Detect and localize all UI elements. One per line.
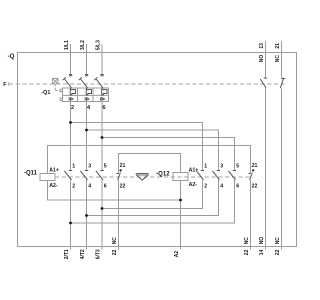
svg-text:-Q: -Q	[8, 53, 15, 60]
junction T3 crossover	[101, 207, 104, 210]
Q1 magnetic release I> pole 3	[101, 98, 105, 101]
wire Q11 pole 2 output to terminal 4/T2	[86, 180, 88, 250]
Q1 pole contacts and releases drawn per pole	[63, 75, 107, 101]
junction dots	[69, 121, 254, 224]
node L2 top lead	[86, 44, 88, 76]
svg-text:6: 6	[236, 183, 239, 189]
svg-text:4: 4	[88, 183, 91, 189]
junction A2	[179, 199, 182, 202]
svg-text:22: 22	[120, 183, 126, 189]
wire Q12 coil A2 drop to terminal A2	[180, 181, 182, 250]
Q11 contact 5-6	[96, 171, 104, 180]
node L1 top lead	[70, 44, 72, 76]
svg-text:A2-: A2-	[189, 182, 198, 188]
wire Q11 aux 21 to Q12 coil A1	[119, 154, 181, 174]
svg-text:5: 5	[104, 163, 107, 169]
svg-text:A1+: A1+	[189, 167, 199, 173]
coil Q11	[40, 174, 55, 181]
svg-text:6: 6	[104, 183, 107, 189]
Q12 aux NC contact 21-22	[249, 172, 253, 180]
Q1 thermal release pole 1	[70, 88, 75, 95]
text labels	[3, 53, 170, 177]
svg-text:-Q12: -Q12	[156, 171, 170, 177]
wire T1 from Q1 to Q11 contact 1	[70, 102, 72, 171]
svg-text:2/T1: 2/T1	[64, 249, 70, 259]
Q1 pole 1 contact	[63, 75, 72, 88]
wire Q11 aux 22 to terminal 22	[118, 180, 120, 250]
svg-text:5/L3: 5/L3	[95, 40, 101, 50]
manual operator of Q1 (crossed box)	[53, 79, 59, 85]
wire Q12 pole 1 output crossover to T3	[102, 180, 203, 209]
marker Q11 aux	[120, 169, 122, 171]
svg-text:1/L1: 1/L1	[64, 40, 70, 50]
svg-text:22: 22	[252, 183, 258, 189]
wire NO13 top lead	[265, 41, 267, 78]
svg-text:NC: NC	[275, 55, 281, 63]
svg-text:-Q11: -Q11	[24, 171, 38, 177]
wire Q11 coil A2 rail	[48, 181, 181, 201]
svg-text:3: 3	[220, 163, 223, 169]
wire Q11 pole 1 output to terminal 2/T1	[70, 180, 72, 250]
svg-text:22: 22	[112, 249, 118, 255]
NO contact 13-14	[260, 78, 267, 88]
Q1 magnetic release I> pole 1	[69, 98, 73, 101]
svg-text:21: 21	[275, 43, 281, 49]
svg-text:4/T2: 4/T2	[80, 249, 86, 259]
F lead tick	[8, 82, 10, 85]
svg-text:NO: NO	[259, 237, 265, 245]
svg-text:1: 1	[72, 163, 75, 169]
svg-text:21: 21	[252, 163, 258, 169]
svg-text:2: 2	[204, 183, 207, 189]
dashed trip linkage line F	[9, 83, 285, 85]
wire NC21 to terminal 22	[281, 88, 283, 249]
circuit breaker Q1 body	[63, 88, 109, 102]
dashed mechanism line Q11-Q12	[55, 176, 253, 178]
rotated terminal labels	[64, 40, 281, 259]
svg-text:NC: NC	[112, 237, 118, 245]
Q1 trip tab lower	[60, 98, 62, 100]
svg-text:4: 4	[220, 183, 223, 189]
Q11 aux NC contact 21-22	[117, 172, 121, 180]
Q1 thermal release pole 2	[86, 88, 91, 95]
wire branch L2 to Q12 terminal 3	[87, 130, 219, 171]
svg-text:A2-: A2-	[49, 183, 58, 189]
junction L3 branch	[101, 136, 104, 139]
svg-text:1: 1	[204, 163, 207, 169]
Q11 contact 1-2	[64, 171, 72, 180]
svg-text:22: 22	[275, 249, 281, 255]
svg-text:NO: NO	[259, 55, 265, 63]
Q1 pole 2 contact	[79, 75, 89, 88]
wire T2 from Q1 to Q11 contact 3	[86, 102, 88, 171]
enclosure border -Q	[18, 53, 297, 247]
coil Q12	[173, 173, 188, 181]
wire branch L1 to Q12 terminal 1	[71, 123, 203, 171]
svg-text:6/T3: 6/T3	[95, 249, 101, 259]
svg-text:-Q1: -Q1	[41, 90, 50, 96]
junction L2 branch	[85, 129, 88, 132]
Q12 contact 5-6	[228, 171, 236, 180]
wire NO13 to terminal 14	[265, 88, 267, 250]
Q1 magnetic release I> pole 2	[85, 98, 89, 101]
svg-text:21: 21	[120, 163, 126, 169]
junction T2 crossover	[85, 214, 88, 217]
svg-text:NC: NC	[275, 237, 281, 245]
Q1 thermal release pole 3	[102, 88, 107, 95]
wire branch L3 to Q12 terminal 5	[102, 138, 235, 171]
node L3 top lead	[101, 44, 103, 76]
svg-text:NC: NC	[244, 237, 250, 245]
Q1 trip tab upper	[60, 89, 62, 91]
MSP aux contacts top right	[260, 78, 285, 88]
svg-text:3: 3	[88, 163, 91, 169]
marker Q12 aux	[252, 169, 254, 171]
dashed link operator to Q1	[55, 84, 60, 91]
contactor Q11	[40, 174, 253, 181]
contactor Q12	[173, 173, 188, 181]
Q1 pole 3 contact	[94, 75, 104, 88]
wire Q12 aux 22 to terminal 22	[250, 180, 252, 250]
svg-text:5: 5	[236, 163, 239, 169]
svg-text:A1+: A1+	[49, 167, 59, 173]
svg-text:2: 2	[72, 183, 75, 189]
NC contact 21-22	[280, 78, 285, 88]
svg-text:3/L2: 3/L2	[80, 40, 86, 50]
wire Q12 pole 3 output crossover to T1	[71, 180, 235, 224]
svg-text:14: 14	[259, 249, 265, 255]
junction L1 branch	[69, 121, 72, 124]
Q12 contact 1-2	[196, 171, 204, 180]
wire T3 from Q1 to Q11 contact 5	[101, 102, 103, 171]
Q12 contact 3-4	[212, 171, 220, 180]
svg-text:22: 22	[244, 249, 250, 255]
wire Q11 pole 3 output to terminal 6/T3	[101, 180, 103, 250]
mechanical interlock symbol	[136, 173, 149, 180]
wire A1 rail Q11 coil to Q12 aux 21	[48, 146, 251, 174]
junction T1 crossover	[69, 222, 72, 225]
svg-text:2: 2	[71, 105, 74, 111]
svg-text:6: 6	[103, 105, 106, 111]
svg-text:A2: A2	[174, 251, 180, 258]
wire NC21 top lead	[281, 41, 283, 79]
svg-text:13: 13	[259, 43, 265, 49]
wire Q12 pole 2 output crossover to T2	[87, 180, 219, 216]
Q11 contact 3-4	[80, 171, 88, 180]
